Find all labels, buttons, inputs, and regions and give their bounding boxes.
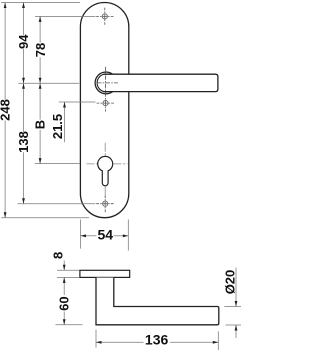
arrows side view — [63, 265, 238, 344]
ext 136 right — [217, 331, 219, 350]
arrows top view — [4, 3, 129, 238]
svg-text:Ø20: Ø20 — [222, 270, 237, 295]
handle neck inner circle — [97, 74, 115, 92]
svg-text:248: 248 — [0, 99, 13, 121]
dim B — [39, 83, 41, 119]
dim 138 — [23, 83, 25, 132]
dim 136 — [96, 341, 144, 343]
cylinder centerlines — [87, 143, 128, 198]
bottom screw hole — [103, 201, 108, 206]
boss vertical centerline (through lower screw hole) — [105, 67, 107, 112]
lever bar (covers right part of boss and plate edge) — [104, 74, 218, 91]
ext 136 left — [95, 330, 97, 348]
dim 78 — [39, 16, 41, 42]
svg-text:78: 78 — [33, 43, 48, 57]
top screw hole — [102, 14, 107, 19]
ext rose bottom — [57, 276, 80, 278]
svg-text:138: 138 — [16, 131, 31, 153]
ext top screw — [35, 15, 96, 17]
dim 94 — [23, 3, 25, 35]
svg-text:60: 60 — [57, 296, 72, 310]
lower screw hole crosshair (below handle) — [97, 102, 114, 104]
svg-text:136: 136 — [145, 331, 169, 347]
ext cylinder — [35, 163, 80, 165]
ext bottom screw — [18, 203, 96, 205]
top screw hole crosshair — [96, 8, 113, 25]
bottom screw hole crosshair — [96, 195, 114, 212]
backplate outline — [80, 3, 128, 218]
ext plate top — [1, 2, 80, 4]
dim 54 ext lines — [80, 220, 82, 249]
euro profile cylinder hole — [98, 156, 113, 185]
dim 54 line — [81, 235, 97, 237]
dim 21.5 — [64, 102, 66, 142]
dim 8 stem — [63, 261, 65, 271]
svg-text:B: B — [33, 120, 48, 129]
svg-text:21.5: 21.5 — [50, 114, 65, 139]
dim 60 — [63, 277, 65, 295]
boss horizontal centerline — [97, 82, 118, 84]
ext grip top right — [224, 306, 241, 308]
handle boss outer circle — [95, 72, 117, 94]
ext handle centerline — [18, 82, 79, 84]
svg-text:54: 54 — [98, 226, 114, 242]
svg-text:94: 94 — [16, 34, 31, 49]
svg-text:8: 8 — [51, 252, 66, 259]
dim O20 — [235, 268, 237, 307]
ext lower screw — [59, 101, 96, 103]
ext grip bottom right — [226, 324, 242, 326]
ext plate bottom — [1, 217, 89, 219]
rose (side) — [80, 270, 130, 277]
ext grip bottom left — [56, 324, 83, 326]
dim 248 — [4, 3, 6, 100]
ext rose top — [57, 269, 80, 271]
handle profile — [96, 278, 219, 325]
lower screw hole — [103, 101, 108, 106]
